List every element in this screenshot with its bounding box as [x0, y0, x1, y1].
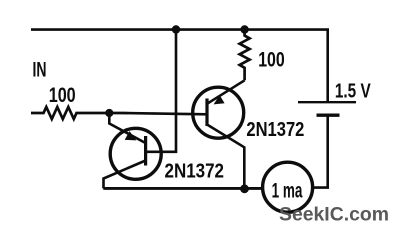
- svg-text:1 ma: 1 ma: [272, 179, 303, 202]
- svg-text:100: 100: [258, 49, 285, 72]
- svg-text:1.5 V: 1.5 V: [335, 79, 371, 102]
- svg-text:SeekIC.com: SeekIC.com: [279, 204, 389, 226]
- svg-text:2N1372: 2N1372: [246, 118, 304, 141]
- svg-text:IN: IN: [33, 59, 47, 82]
- svg-text:100: 100: [49, 84, 76, 107]
- svg-text:2N1372: 2N1372: [165, 159, 225, 182]
